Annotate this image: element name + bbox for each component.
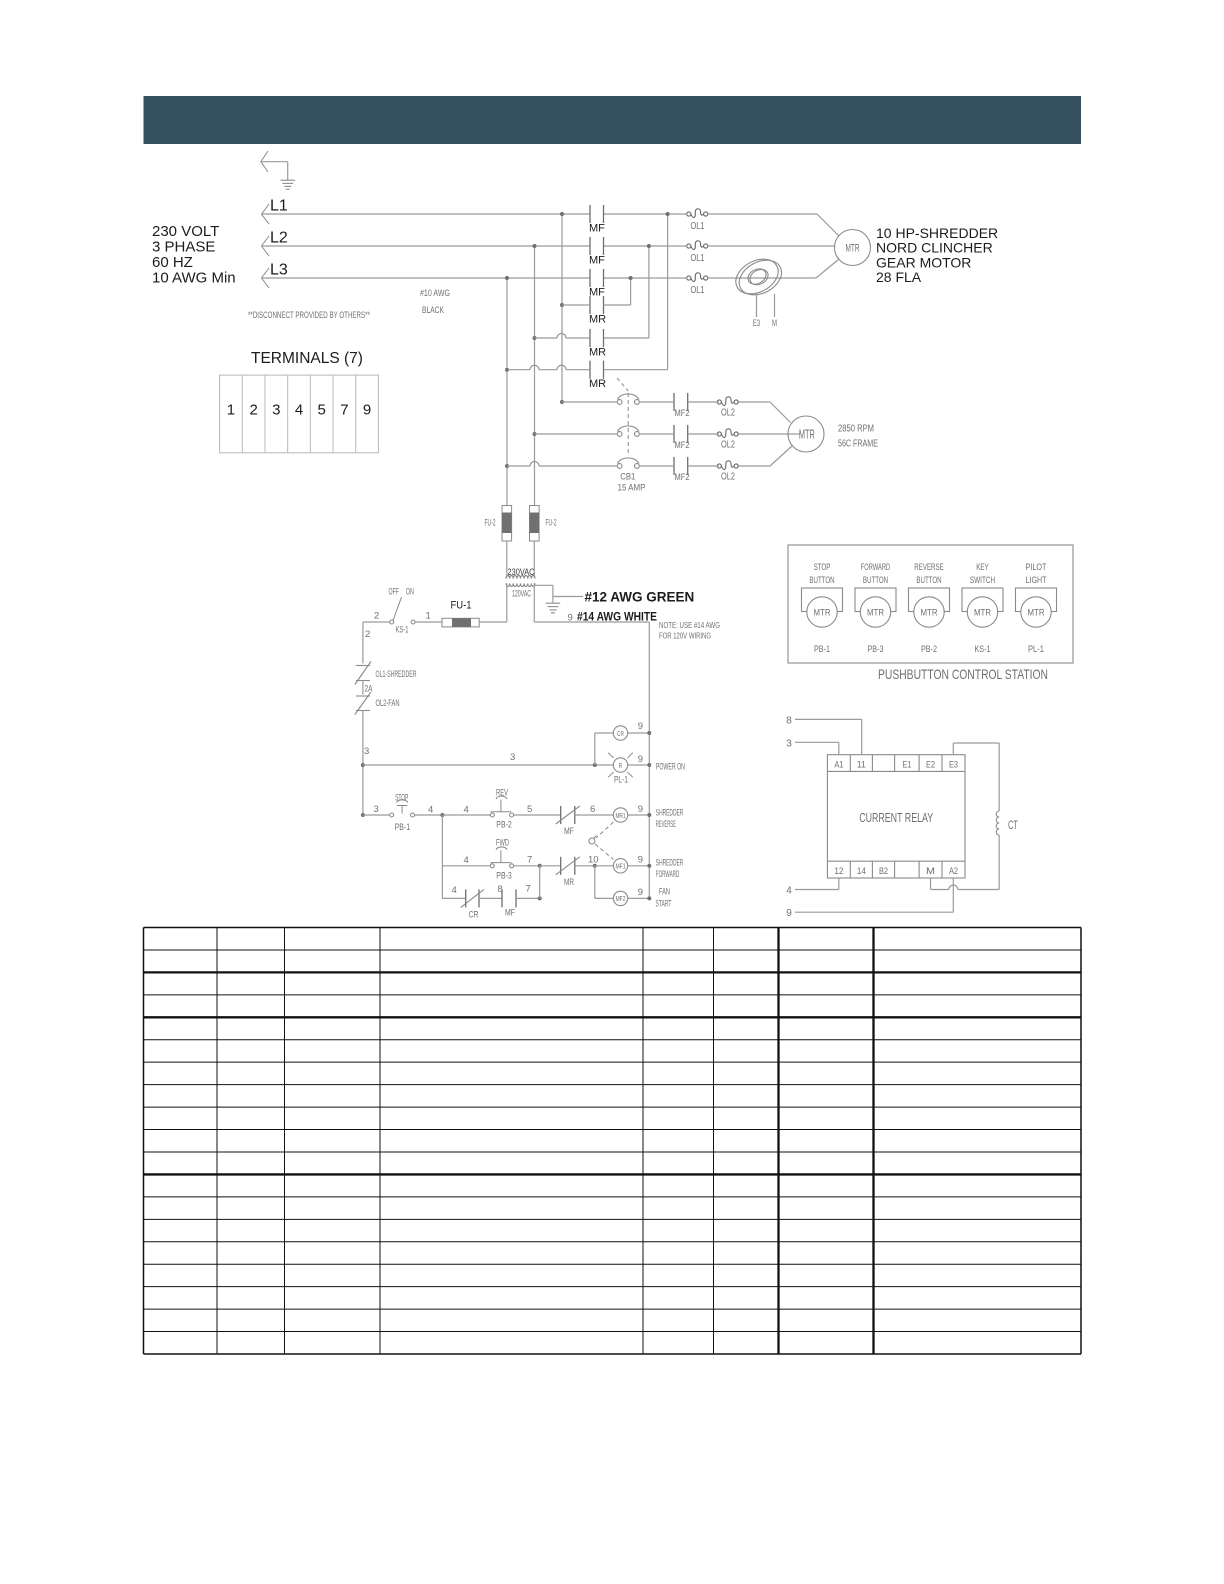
svg-text:#12 AWG GREEN: #12 AWG GREEN bbox=[585, 590, 695, 605]
svg-text:PB-3: PB-3 bbox=[496, 871, 512, 882]
svg-text:MF2: MF2 bbox=[675, 472, 690, 483]
svg-text:SHREDDER: SHREDDER bbox=[656, 858, 684, 869]
svg-text:MTR: MTR bbox=[799, 427, 815, 442]
svg-text:POWER ON: POWER ON bbox=[656, 762, 685, 773]
svg-text:OL2-FAN: OL2-FAN bbox=[376, 698, 400, 709]
svg-text:9: 9 bbox=[638, 855, 643, 866]
svg-text:BUTTON: BUTTON bbox=[809, 575, 834, 586]
svg-text:MR1: MR1 bbox=[615, 811, 625, 820]
svg-text:A1: A1 bbox=[834, 759, 843, 770]
svg-text:3: 3 bbox=[272, 402, 280, 419]
svg-text:PB-1: PB-1 bbox=[395, 822, 411, 833]
svg-text:3: 3 bbox=[364, 746, 369, 757]
svg-text:FOR 120V WIRING: FOR 120V WIRING bbox=[659, 631, 711, 641]
svg-text:REVERSE: REVERSE bbox=[656, 819, 676, 830]
svg-text:MR: MR bbox=[589, 378, 606, 390]
svg-text:BUTTON: BUTTON bbox=[863, 575, 888, 586]
svg-text:FWD: FWD bbox=[496, 838, 509, 849]
svg-text:KEY: KEY bbox=[976, 562, 989, 573]
svg-text:7: 7 bbox=[526, 884, 531, 895]
svg-text:MF2: MF2 bbox=[615, 894, 625, 903]
svg-text:4: 4 bbox=[464, 805, 469, 816]
svg-text:E3: E3 bbox=[753, 318, 760, 329]
svg-text:9: 9 bbox=[638, 887, 643, 898]
svg-text:MTR: MTR bbox=[846, 243, 860, 255]
svg-text:FU-2: FU-2 bbox=[485, 518, 496, 529]
svg-text:OL2: OL2 bbox=[721, 440, 735, 451]
svg-text:28 FLA: 28 FLA bbox=[876, 269, 922, 285]
svg-text:15 AMP: 15 AMP bbox=[618, 483, 646, 494]
svg-text:B2: B2 bbox=[879, 866, 888, 877]
svg-text:9: 9 bbox=[786, 908, 792, 919]
svg-text:FU-1: FU-1 bbox=[451, 600, 472, 612]
svg-text:L2: L2 bbox=[270, 230, 288, 247]
svg-text:BUTTON: BUTTON bbox=[916, 575, 941, 586]
svg-text:12: 12 bbox=[834, 866, 843, 877]
svg-text:MF: MF bbox=[564, 826, 574, 837]
svg-text:7: 7 bbox=[340, 402, 348, 419]
svg-text:14: 14 bbox=[857, 866, 866, 877]
svg-text:NORD CLINCHER: NORD CLINCHER bbox=[876, 240, 993, 256]
svg-text:PL-1: PL-1 bbox=[614, 775, 628, 786]
svg-text:LIGHT: LIGHT bbox=[1026, 575, 1047, 586]
svg-text:MTR: MTR bbox=[921, 608, 938, 619]
svg-text:1: 1 bbox=[426, 611, 431, 622]
svg-text:MF2: MF2 bbox=[675, 440, 690, 451]
svg-text:5: 5 bbox=[318, 402, 326, 419]
svg-text:E2: E2 bbox=[926, 759, 935, 770]
svg-text:7: 7 bbox=[527, 855, 532, 866]
svg-text:CT: CT bbox=[1008, 818, 1018, 832]
svg-text:MF1: MF1 bbox=[615, 862, 625, 871]
svg-text:4: 4 bbox=[428, 805, 433, 816]
svg-text:MTR: MTR bbox=[867, 608, 884, 619]
svg-text:FAN: FAN bbox=[659, 887, 670, 898]
svg-text:STOP: STOP bbox=[395, 793, 408, 804]
svg-text:2: 2 bbox=[365, 629, 370, 640]
svg-text:MF: MF bbox=[589, 223, 605, 235]
svg-text:ON: ON bbox=[406, 587, 414, 598]
svg-text:4: 4 bbox=[295, 402, 303, 419]
svg-text:CB1: CB1 bbox=[620, 472, 635, 483]
svg-text:MF: MF bbox=[505, 908, 515, 919]
svg-text:OL1: OL1 bbox=[691, 285, 705, 296]
svg-text:R: R bbox=[619, 761, 623, 770]
svg-text:3 PHASE: 3 PHASE bbox=[152, 239, 215, 256]
svg-text:E3: E3 bbox=[949, 759, 958, 770]
svg-text:PILOT: PILOT bbox=[1026, 562, 1047, 573]
svg-text:11: 11 bbox=[857, 759, 866, 770]
svg-text:MTR: MTR bbox=[1028, 608, 1045, 619]
svg-text:PL-1: PL-1 bbox=[1028, 644, 1044, 655]
svg-text:START: START bbox=[656, 899, 672, 910]
svg-text:1: 1 bbox=[227, 402, 235, 419]
svg-text:**DISCONNECT PROVIDED BY OTHER: **DISCONNECT PROVIDED BY OTHERS** bbox=[248, 310, 370, 321]
svg-text:10 HP-SHREDDER: 10 HP-SHREDDER bbox=[876, 225, 998, 241]
svg-text:2A: 2A bbox=[365, 684, 373, 695]
svg-text:REVERSE: REVERSE bbox=[914, 562, 943, 573]
svg-text:3: 3 bbox=[374, 804, 379, 815]
svg-text:GEAR MOTOR: GEAR MOTOR bbox=[876, 254, 971, 270]
svg-text:NOTE: USE #14 AWG: NOTE: USE #14 AWG bbox=[659, 620, 720, 630]
svg-text:OFF: OFF bbox=[389, 587, 400, 598]
svg-text:FU-2: FU-2 bbox=[546, 518, 557, 529]
svg-text:TERMINALS (7): TERMINALS (7) bbox=[251, 350, 363, 367]
svg-text:MR: MR bbox=[589, 314, 606, 326]
svg-text:2: 2 bbox=[249, 402, 257, 419]
svg-text:MF2: MF2 bbox=[675, 408, 690, 419]
svg-text:3: 3 bbox=[510, 752, 515, 763]
svg-text:3: 3 bbox=[786, 738, 792, 749]
svg-text:60 HZ: 60 HZ bbox=[152, 254, 193, 271]
svg-text:REV: REV bbox=[496, 788, 508, 799]
svg-text:10 AWG Min: 10 AWG Min bbox=[152, 270, 236, 287]
svg-text:STOP: STOP bbox=[814, 562, 831, 573]
svg-text:MF: MF bbox=[589, 255, 605, 267]
svg-text:5: 5 bbox=[527, 804, 532, 815]
svg-text:230 VOLT: 230 VOLT bbox=[152, 223, 219, 240]
svg-text:2: 2 bbox=[374, 611, 379, 622]
svg-text:56C FRAME: 56C FRAME bbox=[838, 439, 878, 450]
svg-text:BLACK: BLACK bbox=[422, 305, 444, 316]
svg-text:OL1-SHREDDER: OL1-SHREDDER bbox=[376, 669, 417, 680]
svg-text:MR: MR bbox=[564, 877, 574, 888]
svg-text:A2: A2 bbox=[949, 866, 958, 877]
svg-text:10: 10 bbox=[588, 855, 599, 866]
svg-text:FORWARD: FORWARD bbox=[656, 869, 680, 880]
svg-text:M: M bbox=[772, 318, 777, 329]
svg-text:M: M bbox=[926, 866, 935, 877]
svg-text:OL1: OL1 bbox=[691, 253, 705, 264]
svg-text:4: 4 bbox=[464, 855, 469, 866]
svg-text:120VAC: 120VAC bbox=[512, 589, 531, 600]
svg-text:PB-2: PB-2 bbox=[921, 644, 937, 655]
svg-text:#10 AWG: #10 AWG bbox=[420, 288, 450, 299]
svg-text:8: 8 bbox=[786, 715, 792, 726]
svg-text:KS-1: KS-1 bbox=[396, 625, 409, 636]
svg-text:MF: MF bbox=[589, 287, 605, 299]
svg-text:2850 RPM: 2850 RPM bbox=[838, 424, 874, 435]
svg-text:FORWARD: FORWARD bbox=[861, 562, 890, 573]
svg-text:MTR: MTR bbox=[974, 608, 991, 619]
svg-text:CR: CR bbox=[469, 909, 479, 920]
svg-text:9: 9 bbox=[363, 402, 371, 419]
svg-text:L1: L1 bbox=[270, 198, 288, 215]
svg-text:PB-2: PB-2 bbox=[496, 820, 512, 831]
svg-text:L3: L3 bbox=[270, 262, 288, 279]
svg-text:OL2: OL2 bbox=[721, 408, 735, 419]
svg-text:OL1: OL1 bbox=[691, 221, 705, 232]
svg-text:PB-3: PB-3 bbox=[868, 644, 884, 655]
svg-text:MR: MR bbox=[589, 347, 606, 359]
svg-text:CR: CR bbox=[617, 729, 624, 738]
svg-text:PB-1: PB-1 bbox=[814, 644, 830, 655]
svg-text:9: 9 bbox=[638, 804, 643, 815]
svg-text:OL2: OL2 bbox=[721, 472, 735, 483]
svg-text:CURRENT RELAY: CURRENT RELAY bbox=[859, 810, 933, 825]
svg-text:9: 9 bbox=[638, 721, 643, 732]
svg-text:E1: E1 bbox=[902, 759, 911, 770]
svg-text:SHREDDER: SHREDDER bbox=[656, 808, 684, 819]
svg-text:9: 9 bbox=[638, 754, 643, 765]
svg-text:MTR: MTR bbox=[814, 608, 831, 619]
svg-text:4: 4 bbox=[452, 885, 457, 896]
svg-text:SWITCH: SWITCH bbox=[970, 575, 995, 586]
svg-text:PUSHBUTTON CONTROL STATION: PUSHBUTTON CONTROL STATION bbox=[878, 666, 1048, 682]
svg-text:6: 6 bbox=[590, 804, 595, 815]
svg-text:4: 4 bbox=[786, 886, 792, 897]
svg-text:KS-1: KS-1 bbox=[975, 644, 991, 655]
